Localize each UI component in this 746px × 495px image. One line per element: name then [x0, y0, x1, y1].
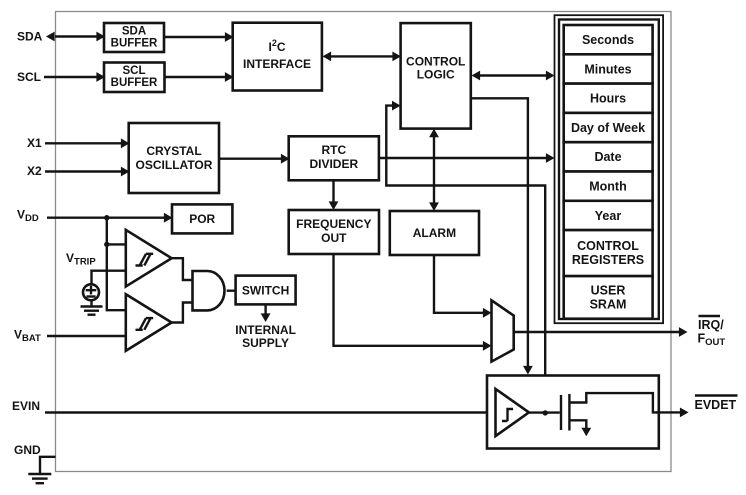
output label EVDET	[695, 396, 738, 412]
block U3 CRYSTAL OSCILLATOR	[129, 123, 219, 193]
buffer SCL BUFFER	[104, 63, 165, 93]
svg-text:CONTROL: CONTROL	[577, 239, 639, 253]
svg-text:GND: GND	[14, 443, 41, 457]
wire X1 input	[45, 138, 130, 148]
svg-text:FREQUENCY: FREQUENCY	[296, 217, 371, 231]
wire VDD branch down	[107, 218, 126, 311]
wire VDD to POR	[47, 213, 173, 223]
svg-text:Hours: Hours	[590, 92, 626, 106]
svg-text:SWITCH: SWITCH	[242, 284, 289, 298]
svg-text:POR: POR	[189, 212, 215, 226]
wire event node to CONTROL LOGIC	[386, 101, 545, 414]
svg-text:ALARM: ALARM	[413, 226, 456, 240]
wire SCL input	[44, 72, 105, 82]
block U1 I2C INTERFACE	[233, 23, 322, 91]
event detect block boundary	[487, 376, 659, 449]
wire SCL BUFFER to I2C	[165, 72, 234, 82]
svg-text:USER: USER	[591, 284, 626, 298]
transistor Q1 gate bar	[560, 395, 562, 430]
registers panel outer frame	[555, 15, 664, 323]
register Month	[564, 172, 653, 201]
pin label SCL	[17, 70, 41, 84]
wire EVDET output	[656, 408, 689, 418]
svg-text:SDA: SDA	[122, 26, 146, 38]
wire Q1 source with arrow	[569, 420, 591, 436]
wire EVIN input	[45, 411, 496, 413]
svg-text:Minutes: Minutes	[584, 62, 631, 76]
block U4 RTC DIVIDER	[289, 136, 379, 180]
svg-text:REGISTERS: REGISTERS	[572, 253, 644, 267]
wire mux to IRQ/FOUT output	[514, 327, 688, 337]
transistor Q1 channel bar	[568, 394, 570, 431]
wire comparator A1 to AND gate	[172, 258, 193, 280]
wire CONTROL LOGIC to registers bidirectional	[472, 71, 555, 81]
svg-text:RTC: RTC	[321, 143, 346, 157]
pin label X2	[27, 164, 42, 178]
pin label GND	[14, 443, 41, 457]
wire Q1 drain	[569, 393, 658, 412]
wire VBAT to comparator 2	[47, 335, 126, 337]
buffer SDA BUFFER	[104, 23, 164, 52]
svg-text:Day of Week: Day of Week	[571, 121, 645, 135]
block U7 SWITCH	[236, 276, 296, 305]
chip boundary	[56, 12, 672, 472]
output label IRQ/FOUT	[698, 316, 726, 348]
svg-text:DIVIDER: DIVIDER	[309, 157, 358, 171]
wire GND stub	[40, 457, 56, 473]
svg-text:LOGIC: LOGIC	[417, 68, 455, 82]
wire CRYSTAL OSCILLATOR to RTC DIVIDER	[219, 154, 290, 164]
ground below VTRIP source	[81, 299, 103, 315]
register USER SRAM	[564, 276, 653, 319]
svg-text:Seconds: Seconds	[582, 33, 634, 47]
label INTERNAL SUPPLY	[235, 323, 296, 350]
svg-text:Month: Month	[589, 180, 626, 194]
voltage reference VTRIP source	[83, 284, 99, 300]
wire schmitt buffer to MOSFET gate	[529, 411, 560, 413]
svg-text:Year: Year	[595, 209, 622, 223]
svg-text:INTERNAL: INTERNAL	[235, 323, 296, 337]
pin label VBAT	[14, 328, 41, 344]
register CONTROL REGISTERS	[564, 230, 653, 276]
node event detect junction	[543, 410, 548, 415]
svg-text:I2C: I2C	[268, 38, 285, 54]
node VDD to comparator junction	[104, 242, 109, 247]
ground GND symbol	[28, 474, 51, 483]
comparator A2 (VTRIP/VBAT)	[126, 294, 172, 351]
schmitt buffer U11	[496, 389, 529, 436]
wire I2C to CONTROL LOGIC bidirectional	[323, 52, 402, 62]
svg-text:SUPPLY: SUPPLY	[242, 336, 289, 350]
wire X2 input	[45, 167, 130, 177]
svg-text:BUFFER: BUFFER	[111, 38, 158, 50]
svg-text:OSCILLATOR: OSCILLATOR	[136, 158, 213, 172]
mux U10	[492, 300, 514, 361]
block U5 POR	[172, 204, 232, 233]
svg-text:SCL: SCL	[123, 65, 146, 77]
svg-text:X2: X2	[27, 164, 42, 178]
wire VTRIP to comparator 1	[92, 271, 126, 285]
svg-text:Date: Date	[594, 150, 621, 164]
wire CONTROL LOGIC to ALARM bidirectional	[429, 129, 439, 211]
AND gate U6	[193, 271, 225, 310]
wire SDA BUFFER to I2C	[164, 32, 234, 42]
svg-text:CRYSTAL: CRYSTAL	[146, 144, 201, 158]
wire RTC DIVIDER to registers Date	[379, 153, 555, 163]
svg-text:SDA: SDA	[17, 30, 43, 44]
wire FREQUENCY OUT to mux	[334, 254, 492, 351]
svg-text:SRAM: SRAM	[590, 298, 627, 312]
block U8 FREQUENCY OUT	[289, 210, 379, 254]
register Hours	[564, 84, 653, 113]
svg-text:EVDET: EVDET	[695, 398, 737, 412]
comparator A1 (VDD/VTRIP)	[126, 230, 172, 287]
wire CONTROL LOGIC to event block select	[471, 98, 533, 374]
svg-text:INTERFACE: INTERFACE	[243, 57, 311, 71]
wire ALARM to mux	[434, 255, 492, 318]
pin label SDA	[17, 30, 43, 44]
block U9 ALARM	[390, 211, 479, 255]
register Seconds	[564, 25, 653, 54]
wire RTC DIVIDER down to FREQUENCY OUT	[329, 180, 339, 210]
node VDD junction	[104, 215, 109, 220]
wire AND gate to SWITCH	[227, 290, 236, 292]
wire SDA bidirectional	[46, 32, 105, 42]
pin label VDD	[17, 208, 39, 224]
register Year	[564, 201, 653, 230]
svg-text:IRQ/: IRQ/	[698, 318, 724, 332]
svg-text:EVIN: EVIN	[12, 399, 40, 413]
svg-text:X1: X1	[27, 136, 42, 150]
register Minutes	[564, 54, 653, 83]
wire comparator A2 to AND gate	[172, 303, 193, 323]
svg-text:SCL: SCL	[17, 70, 41, 84]
svg-text:OUT: OUT	[321, 231, 347, 245]
svg-text:CONTROL: CONTROL	[406, 55, 465, 69]
register Date	[564, 142, 653, 171]
block U2 CONTROL LOGIC	[401, 23, 471, 129]
wire SWITCH to INTERNAL SUPPLY	[261, 304, 271, 322]
wire VDD to comparator 1	[107, 243, 126, 245]
svg-text:BUFFER: BUFFER	[111, 77, 158, 89]
pin label X1	[27, 136, 42, 150]
register Day of Week	[564, 113, 653, 142]
pin label EVIN	[12, 399, 40, 413]
pin label VTRIP	[66, 251, 96, 267]
